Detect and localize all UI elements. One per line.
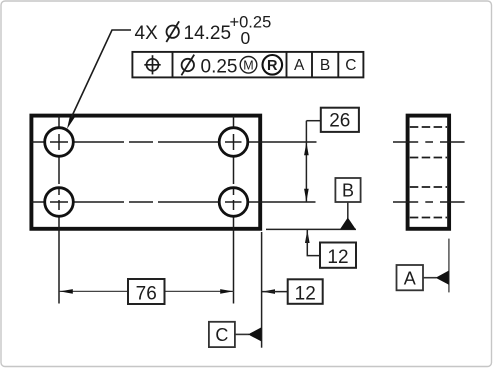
svg-text:12: 12 <box>327 247 348 268</box>
dim 12 lower box <box>288 279 323 304</box>
datum C stem <box>235 333 249 335</box>
svg-text:26: 26 <box>329 110 350 131</box>
datum B triangle <box>340 218 356 230</box>
modifier M circle <box>240 57 257 74</box>
datum B box <box>335 178 360 202</box>
datum A box <box>397 265 424 290</box>
FCF diameter symbol <box>181 55 194 76</box>
svg-text:4X: 4X <box>135 23 159 44</box>
datum B stem <box>347 202 349 219</box>
leader line of hole note <box>71 30 131 118</box>
datum C box <box>209 322 235 347</box>
datum C triangle <box>248 327 262 341</box>
side view outline <box>408 116 450 229</box>
svg-text:76: 76 <box>136 284 157 305</box>
centerline col1 <box>58 116 60 304</box>
dim 76 arrow left <box>60 289 73 294</box>
svg-text:B: B <box>320 57 330 74</box>
note diameter symbol <box>166 21 179 42</box>
svg-text:A: A <box>294 57 305 74</box>
position symbol <box>144 55 160 74</box>
dim 26 arrow up <box>304 142 309 155</box>
front view plate outline <box>31 116 260 229</box>
dim 12 vertical leader <box>307 230 320 256</box>
datum A stem <box>423 277 437 279</box>
svg-text:0: 0 <box>241 28 251 48</box>
dim 12 upper box <box>320 243 356 268</box>
dim 76 line left <box>60 290 129 292</box>
dim 76 arrow right <box>220 289 233 294</box>
svg-text:C: C <box>345 57 356 74</box>
hole top-left <box>45 128 74 157</box>
hole top-right <box>219 128 248 157</box>
modifier R circle <box>263 55 283 75</box>
dim 12 vertical arrow <box>305 230 310 243</box>
svg-text:A: A <box>404 268 416 288</box>
dim 12 horizontal leader <box>262 291 288 293</box>
svg-text:M: M <box>243 58 253 72</box>
svg-text:14.25: 14.25 <box>184 23 232 44</box>
centerline col2 <box>233 116 235 304</box>
datum A extension line <box>448 239 450 293</box>
side view hidden line hole2 top <box>410 186 447 188</box>
feature control frame outline <box>132 52 363 78</box>
centerline row2 <box>31 201 316 203</box>
svg-text:0.25: 0.25 <box>201 56 238 77</box>
dim 26 box <box>321 108 359 132</box>
svg-text:+0.25: +0.25 <box>230 14 272 32</box>
side view centerline row2 <box>393 201 465 203</box>
right edge extension line <box>261 232 263 348</box>
dim 26 extension is rows centerlines; dim line <box>305 121 307 202</box>
svg-text:C: C <box>215 325 228 345</box>
dim 76 line right <box>165 290 234 292</box>
hole bottom-right <box>219 188 248 217</box>
svg-text:B: B <box>342 180 354 200</box>
hole bottom-left <box>45 188 74 217</box>
svg-text:12: 12 <box>295 284 316 305</box>
side view centerline row1 <box>393 141 465 143</box>
side view hidden line hole2 bottom <box>410 217 447 219</box>
FCF cell dividers <box>173 52 339 78</box>
datum B extension line (bottom edge) <box>266 228 356 230</box>
svg-text:R: R <box>267 58 278 74</box>
centerline row1 <box>31 141 317 143</box>
dim 26 leader to box <box>306 120 320 122</box>
dim 76 box <box>128 279 165 304</box>
side view hidden line hole1 top <box>410 126 447 128</box>
dim 12 horizontal arrow <box>262 289 275 294</box>
side view hidden line hole1 bottom <box>410 157 447 159</box>
leader arrow to hole <box>67 115 75 129</box>
datum A triangle <box>436 271 449 285</box>
dim 26 arrow down <box>304 189 309 202</box>
